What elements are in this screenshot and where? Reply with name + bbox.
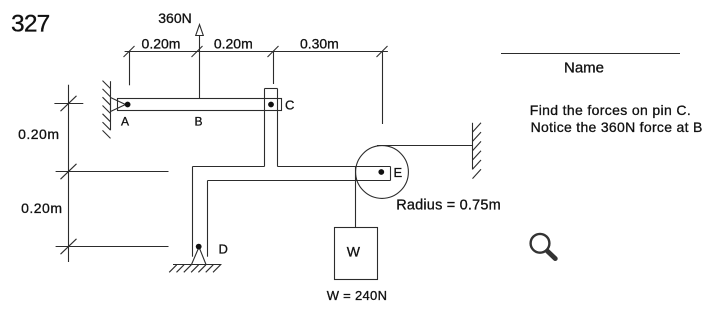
svg-text:Name: Name bbox=[564, 60, 604, 77]
svg-text:0.20m: 0.20m bbox=[214, 36, 253, 52]
svg-text:0.20m: 0.20m bbox=[21, 200, 62, 216]
svg-text:E: E bbox=[394, 165, 403, 180]
svg-text:W: W bbox=[347, 244, 361, 260]
svg-text:B: B bbox=[195, 114, 203, 128]
svg-text:W = 240N: W = 240N bbox=[327, 288, 388, 303]
svg-text:0.30m: 0.30m bbox=[300, 36, 339, 52]
svg-text:Radius = 0.75m: Radius = 0.75m bbox=[396, 197, 501, 213]
svg-text:327: 327 bbox=[11, 11, 50, 38]
svg-text:0.20m: 0.20m bbox=[18, 126, 59, 142]
svg-text:D: D bbox=[219, 242, 228, 257]
svg-text:0.20m: 0.20m bbox=[142, 36, 181, 52]
svg-text:Find the forces on pin C.: Find the forces on pin C. bbox=[530, 102, 691, 118]
svg-text:C: C bbox=[285, 98, 294, 113]
svg-text:A: A bbox=[121, 114, 129, 128]
svg-text:Notice the 360N force at B: Notice the 360N force at B bbox=[531, 119, 703, 135]
svg-text:360N: 360N bbox=[158, 10, 191, 26]
